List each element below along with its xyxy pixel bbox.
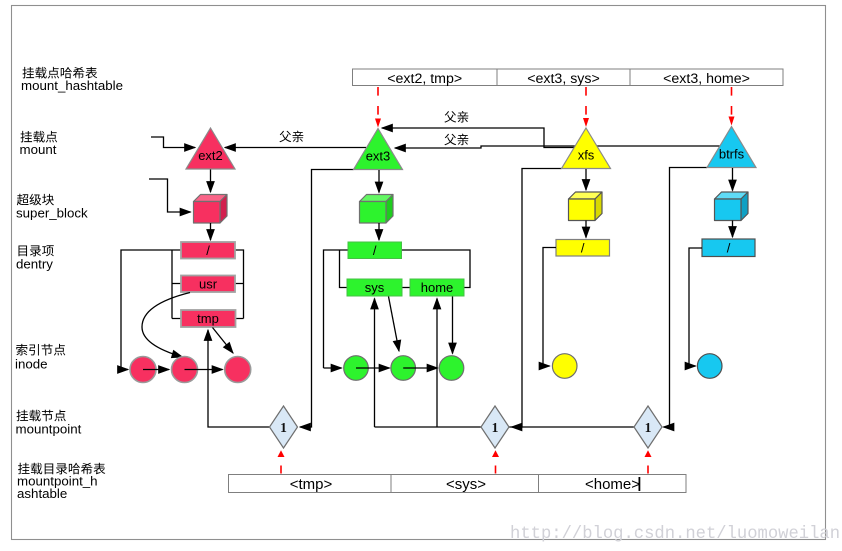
label super_block xyxy=(17,194,54,206)
wire ext3 to super_block xyxy=(378,170,380,193)
pointer to mount ext2 xyxy=(151,137,195,148)
svg-text:/: / xyxy=(373,243,377,258)
svg-text:<ext3, home>: <ext3, home> xyxy=(663,71,750,87)
svg-text:ashtable: ashtable xyxy=(17,486,67,501)
svg-text:tmp: tmp xyxy=(197,311,219,326)
svg-text:/: / xyxy=(727,240,731,255)
wire dentry bracket btrfs xyxy=(689,248,702,366)
text cursor xyxy=(639,477,641,491)
svg-text:/: / xyxy=(206,243,210,258)
wire xfs to sys mountpoint xyxy=(512,169,562,428)
super_block cube xfs xyxy=(569,192,603,199)
mountpoint_hashtable row xyxy=(229,475,687,493)
pointer to super_block ext2 xyxy=(149,179,191,212)
svg-text:xfs: xfs xyxy=(578,148,595,163)
mount triangle btrfs xyxy=(707,127,756,168)
svg-text:dentry: dentry xyxy=(16,256,53,271)
red dashed arrow home xyxy=(647,466,649,474)
wire father btrfs to ext3 xyxy=(395,146,720,148)
wire btrfs to home mountpoint xyxy=(664,168,708,428)
inode circle btrfs xyxy=(697,354,722,379)
svg-text:mount: mount xyxy=(20,142,57,157)
red dashed arrow tmp xyxy=(280,466,282,474)
svg-text:btrfs: btrfs xyxy=(719,147,745,162)
wire mountpoint row horizontal xyxy=(375,426,635,428)
dentry box usr xyxy=(181,276,235,293)
mount_hashtable row xyxy=(353,69,784,86)
wire btrfs to super_block xyxy=(732,168,734,191)
mountpoint diamond sys xyxy=(481,406,509,448)
wire inode b to c ext3 xyxy=(403,367,437,369)
svg-text:<ext3, sys>: <ext3, sys> xyxy=(527,71,600,87)
wire mountpoint to home dentry xyxy=(436,299,438,428)
wire mountpoint to sys dentry xyxy=(374,299,376,428)
inode circle ext2 a xyxy=(130,357,156,383)
svg-text:<sys>: <sys> xyxy=(446,476,486,493)
inode circle ext2 b xyxy=(172,357,198,383)
red dashed arrow to xfs xyxy=(585,87,587,115)
inode circle ext3 a xyxy=(344,356,369,381)
label mount xyxy=(21,131,58,143)
wire dentry bracket ext2 xyxy=(121,250,181,370)
red dashed arrow to btrfs xyxy=(731,87,733,115)
wire usr to inode2 curve xyxy=(142,293,190,358)
wire ext2 to super_block xyxy=(210,170,212,193)
wire inode b to c xyxy=(185,369,223,371)
svg-text:mountpoint: mountpoint xyxy=(16,421,82,436)
red dashed arrow to ext3 xyxy=(377,87,379,115)
inode circle ext2 c xyxy=(225,357,251,383)
wire tmp mountpoint to tmp dentry xyxy=(208,330,270,427)
wire dentry bracket xfs xyxy=(543,248,556,367)
svg-text:sys: sys xyxy=(365,280,385,295)
dentry box xfs / xyxy=(556,240,610,257)
svg-text:inode: inode xyxy=(15,357,48,372)
mount triangle ext2 xyxy=(186,128,235,169)
wire btrfs super_block to dentry xyxy=(732,221,734,238)
dentry box home xyxy=(410,279,464,296)
mount triangle ext3 xyxy=(354,129,403,170)
mount triangle xfs xyxy=(562,128,611,169)
wire father xfs to ext3 xyxy=(382,128,576,148)
svg-text:ext3: ext3 xyxy=(366,149,391,164)
svg-text:<home>: <home> xyxy=(585,476,640,493)
wire inode a to b xyxy=(143,369,169,371)
dentry box btrfs / xyxy=(702,239,755,257)
label mountpoint_hashtable xyxy=(18,463,105,475)
super_block cube ext3 xyxy=(360,195,394,202)
svg-text:super_block: super_block xyxy=(16,205,88,220)
label mountpoint xyxy=(17,410,66,422)
wire tmp to inode3 xyxy=(213,328,234,354)
mountpoint diamond home xyxy=(634,406,662,448)
svg-text:<ext2, tmp>: <ext2, tmp> xyxy=(387,71,462,87)
svg-text:http://blog.csdn.net/luomoweil: http://blog.csdn.net/luomoweilan xyxy=(510,525,840,544)
wire xfs super_block to dentry xyxy=(585,221,587,238)
wire home to inode3 xyxy=(452,297,454,354)
svg-text:home: home xyxy=(421,280,454,295)
svg-text:1: 1 xyxy=(280,420,287,435)
red dashed arrow sys xyxy=(495,466,497,474)
svg-text:1: 1 xyxy=(645,420,652,435)
svg-text:/: / xyxy=(581,240,585,255)
super_block cube ext2 xyxy=(194,195,228,202)
label inode xyxy=(16,344,65,356)
svg-text:ext2: ext2 xyxy=(198,148,223,163)
inode circle ext3 b xyxy=(391,356,416,381)
wire dentry bracket ext3 xyxy=(324,250,349,368)
dentry box tmp xyxy=(181,310,236,327)
wire ext3 super_block to dentry xyxy=(378,223,380,240)
svg-text:1: 1 xyxy=(492,420,499,435)
dentry box sys xyxy=(347,279,402,296)
wire ext2 super_block to dentry xyxy=(210,223,212,240)
wire father ext3 to ext2 xyxy=(225,147,366,149)
dentry box ext3 / xyxy=(348,242,402,259)
mountpoint diamond tmp xyxy=(270,406,298,448)
wire xfs to super_block xyxy=(585,169,587,190)
svg-text:mount_hashtable: mount_hashtable xyxy=(21,78,123,93)
super_block cube btrfs xyxy=(715,192,749,199)
dentry box ext2 / xyxy=(181,242,235,259)
inode circle xfs xyxy=(552,354,577,379)
label mount_hashtable xyxy=(23,67,98,79)
inode circle ext3 c xyxy=(439,356,464,381)
wire sys to home xyxy=(402,287,410,289)
svg-text:usr: usr xyxy=(199,276,218,291)
wire ext3 to tmp mountpoint xyxy=(300,170,354,428)
wire sys to inode2 xyxy=(389,297,400,352)
svg-text:<tmp>: <tmp> xyxy=(290,476,333,493)
wire inode a to b ext3 xyxy=(356,367,390,369)
label dentry xyxy=(18,245,53,256)
